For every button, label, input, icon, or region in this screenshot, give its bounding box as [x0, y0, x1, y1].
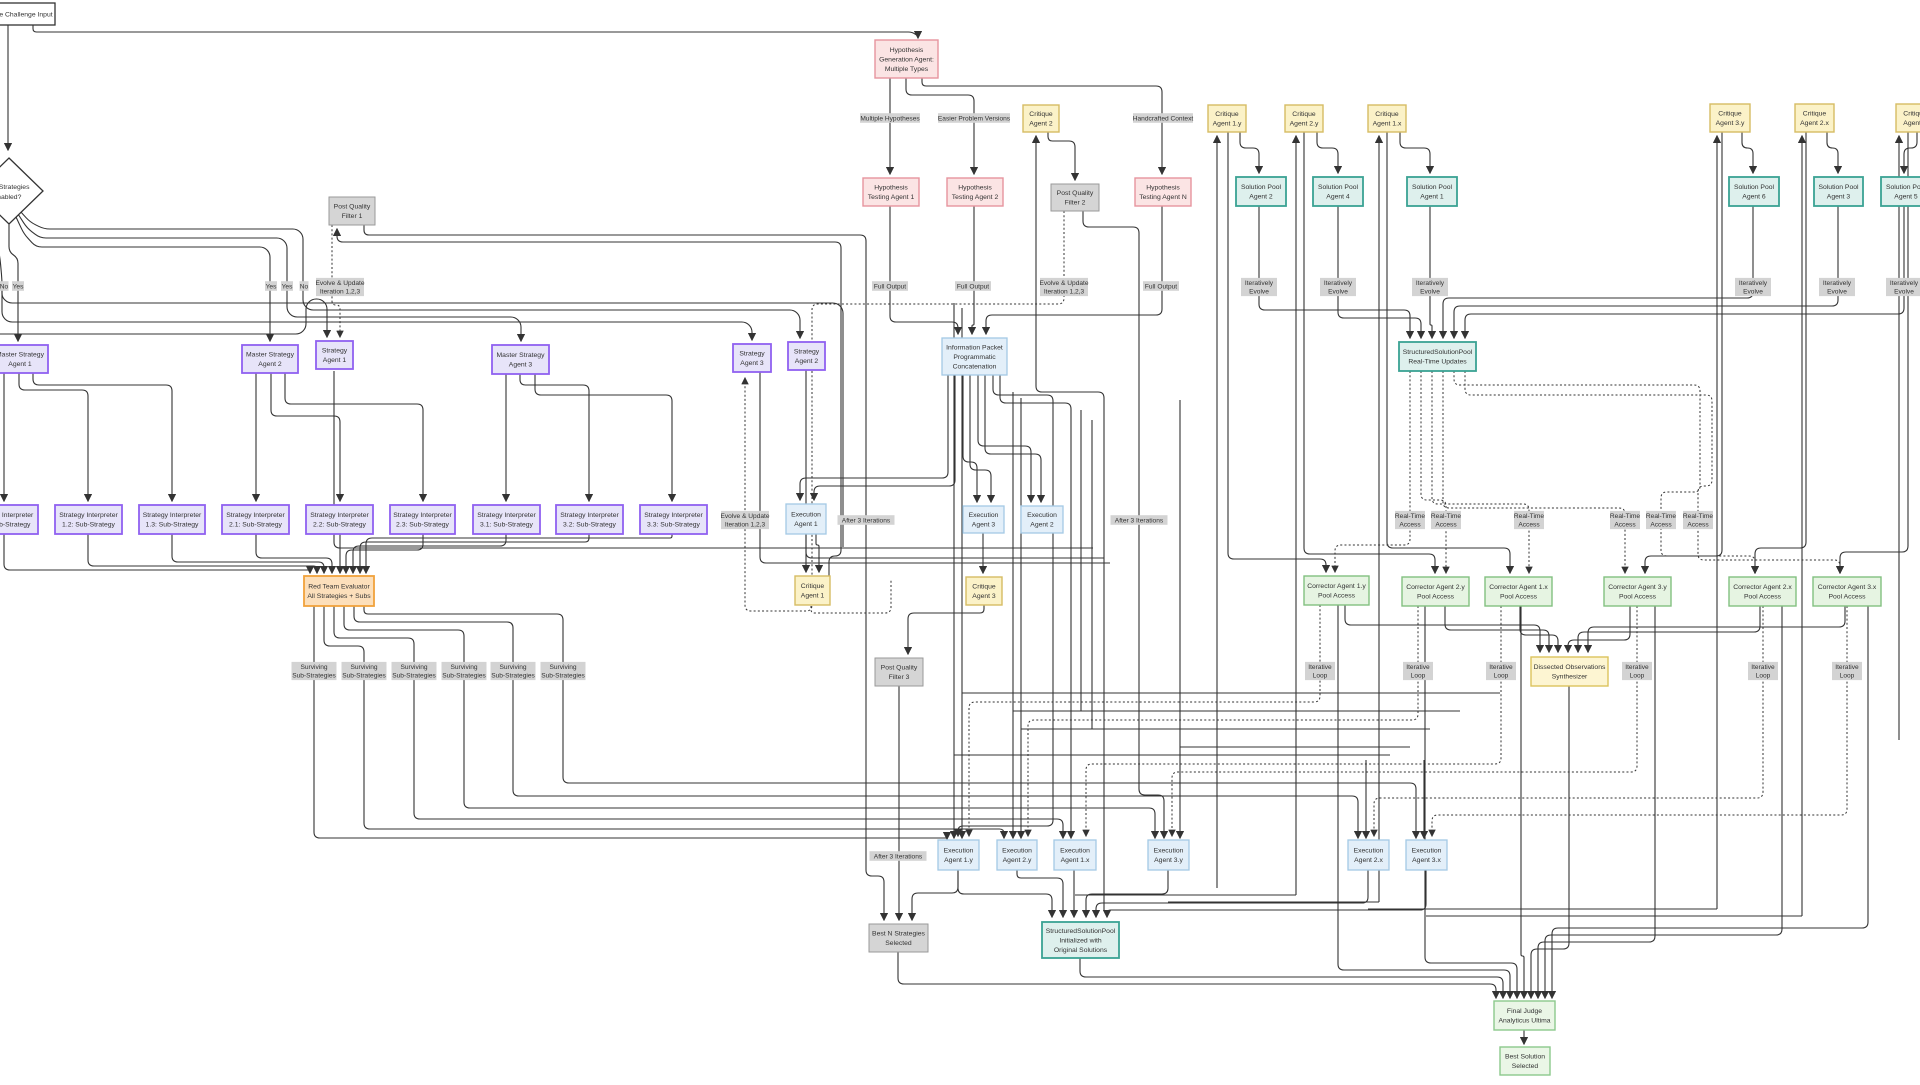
wire ca3x to fjudge	[1552, 606, 1868, 998]
wire dot crit1m tail	[811, 580, 891, 613]
svg-text:Generation Agent:: Generation Agent:	[879, 56, 934, 63]
svg-text:Execution: Execution	[969, 512, 999, 519]
svg-text:Evolve & Update: Evolve & Update	[315, 280, 364, 287]
svg-text:Hypothesis: Hypothesis	[958, 185, 992, 192]
svg-text:Iteration 1,2,3: Iteration 1,2,3	[725, 522, 766, 529]
svg-text:Corrector Agent 1.y: Corrector Agent 1.y	[1307, 583, 1366, 590]
svg-text:Agent 3: Agent 3	[1903, 120, 1920, 127]
wire diamond yes to ms3	[18, 214, 521, 341]
svg-text:Sub-Strategies: Sub-Strategies	[541, 673, 585, 680]
svg-text:Strategy: Strategy	[739, 351, 765, 358]
svg-text:1.1: Sub-Strategy: 1.1: Sub-Strategy	[0, 522, 31, 529]
wire ca2y to dissect	[1445, 606, 1549, 652]
wire sa3 bus	[760, 372, 1110, 563]
svg-text:Original Solutions: Original Solutions	[1054, 947, 1108, 954]
wire crit1y to sp2	[1240, 132, 1259, 173]
wire ms1 to si11	[3, 373, 5, 501]
wire si31 to redteam	[353, 534, 506, 573]
svg-text:Testing Agent 2: Testing Agent 2	[952, 194, 999, 201]
node infopacket	[942, 338, 1007, 375]
wire redteam s6	[364, 606, 1416, 838]
svg-text:After 3 Iterations: After 3 Iterations	[1115, 517, 1164, 524]
svg-text:Post Quality: Post Quality	[881, 665, 918, 672]
svg-text:Agent 2: Agent 2	[1249, 194, 1273, 201]
node crit1x	[1368, 105, 1406, 132]
wire dot pool ca1y	[1335, 371, 1410, 572]
node pqf1	[329, 197, 375, 225]
svg-text:Agent 1.x: Agent 1.x	[1061, 857, 1090, 864]
svg-text:Surviving: Surviving	[549, 664, 576, 671]
svg-text:Pool Access: Pool Access	[1417, 594, 1455, 601]
svg-text:Best Solution: Best Solution	[1505, 1054, 1545, 1061]
wire hs5	[954, 754, 1390, 756]
edge label Full Output	[872, 281, 908, 291]
svg-text:Agent 2.y: Agent 2.y	[1290, 121, 1319, 128]
node pqf2	[1051, 184, 1099, 211]
svg-text:Execution: Execution	[1154, 848, 1184, 855]
svg-text:Surviving: Surviving	[450, 664, 477, 671]
svg-text:Agent 1: Agent 1	[1420, 194, 1444, 201]
wire ms3 to si31	[505, 374, 507, 501]
wire hs2	[1013, 710, 1460, 712]
svg-text:Solution Pool: Solution Pool	[1886, 184, 1920, 191]
edge label After 3 Iterations	[870, 851, 927, 861]
svg-text:Real-Time: Real-Time	[1395, 513, 1425, 520]
wire ip to exec3 b	[970, 375, 991, 502]
wire crit2x to ca2x	[1755, 132, 1806, 573]
svg-text:Solution Pool: Solution Pool	[1412, 184, 1453, 191]
node crit1m	[795, 576, 830, 605]
svg-text:Strategy Interpreter: Strategy Interpreter	[393, 512, 452, 519]
wire dot pool ca2x	[1454, 371, 1755, 573]
wire ca3y to dissect	[1568, 606, 1630, 652]
svg-text:Execution: Execution	[1002, 848, 1032, 855]
wire diamond yes to ms1	[9, 224, 18, 341]
wire up crit2x	[1801, 136, 1803, 916]
svg-text:2.2: Sub-Strategy: 2.2: Sub-Strategy	[313, 522, 366, 529]
edge label Yes	[265, 281, 277, 291]
svg-text:Evolve: Evolve	[1827, 289, 1847, 296]
svg-text:Strategy Interpreter: Strategy Interpreter	[477, 512, 536, 519]
svg-text:Analyticus Ultima: Analyticus Ultima	[1498, 1018, 1550, 1025]
wire dot ca2x loop	[1374, 606, 1763, 836]
edge label Evolve &amp; Update Iteration 1,2,3	[1039, 278, 1088, 296]
node hyptest2	[947, 178, 1003, 206]
svg-text:Strategy: Strategy	[322, 348, 348, 355]
wire hypgen to hyptest2	[906, 78, 974, 174]
svg-text:Agent 3: Agent 3	[1827, 194, 1851, 201]
wire diamond no to sa2	[20, 211, 800, 338]
node dissect	[1531, 657, 1608, 686]
svg-text:After 3 Iterations: After 3 Iterations	[842, 517, 891, 524]
wire crit3y to sp6	[1742, 132, 1753, 173]
svg-text:Strategy Interpreter: Strategy Interpreter	[644, 512, 703, 519]
wire htN to ip	[986, 206, 1162, 334]
svg-text:Loop: Loop	[1840, 673, 1855, 680]
svg-text:Loop: Loop	[1630, 673, 1645, 680]
wire redteam s2	[324, 606, 1004, 838]
svg-text:Pool Access: Pool Access	[1500, 594, 1538, 601]
wire ca1x to dissect	[1520, 606, 1558, 652]
svg-text:Iterative: Iterative	[1308, 664, 1332, 671]
wire up crit1y	[1216, 136, 1218, 888]
svg-text:2.3: Sub-Strategy: 2.3: Sub-Strategy	[396, 522, 449, 529]
wire challenge to hypgen	[33, 25, 918, 38]
svg-text:Real-Time: Real-Time	[1646, 513, 1676, 520]
svg-text:Execution: Execution	[944, 848, 974, 855]
wire dissect to fjudge	[1531, 686, 1569, 998]
wire ms3 to si33	[535, 374, 672, 501]
node exec2	[1021, 506, 1063, 533]
svg-text:Iterative: Iterative	[1835, 664, 1859, 671]
wire ca1y to fjudge	[1338, 605, 1510, 998]
svg-text:Full Output: Full Output	[874, 283, 906, 290]
svg-text:Testing Agent N: Testing Agent N	[1139, 194, 1187, 201]
svg-text:Programmatic: Programmatic	[953, 354, 996, 361]
edge label Iteratively Evolve	[1819, 278, 1855, 296]
svg-text:Iteratively: Iteratively	[1739, 280, 1768, 287]
svg-text:Access: Access	[1435, 522, 1457, 529]
node fjudge	[1494, 1001, 1555, 1030]
wire ms3 to si32	[520, 374, 589, 501]
svg-text:Evolve: Evolve	[1420, 289, 1440, 296]
decision diamond Sub-Strategies Enabled?	[0, 158, 43, 224]
node ms1	[0, 345, 48, 373]
svg-text:Best N Strategies: Best N Strategies	[872, 931, 925, 938]
node crit2y	[1285, 105, 1323, 132]
wire si33 to redteam	[366, 534, 672, 573]
svg-text:Agent 2.x: Agent 2.x	[1800, 120, 1829, 127]
wire redteam s5	[354, 606, 1358, 838]
wire exec3xb join up	[1426, 915, 1802, 917]
node sp4	[1313, 177, 1363, 206]
node pqf3	[875, 658, 923, 686]
svg-text:Iteratively: Iteratively	[1245, 280, 1274, 287]
wire sp4 to pool	[1338, 206, 1421, 338]
svg-text:Loop: Loop	[1313, 673, 1328, 680]
edge label Multiple Hypotheses	[860, 113, 920, 123]
svg-text:Pool Access: Pool Access	[1828, 594, 1866, 601]
wire exec2yb to pool	[1017, 870, 1063, 917]
wire crit3x to sp5	[1904, 132, 1917, 173]
wire ca2x to dissect	[1578, 606, 1760, 652]
svg-text:Agent 1.x: Agent 1.x	[1373, 121, 1402, 128]
wire v1180	[1179, 400, 1181, 838]
svg-text:Agent 3.x: Agent 3.x	[1412, 857, 1441, 864]
node si21	[222, 505, 289, 534]
svg-text:Solution Pool: Solution Pool	[1241, 184, 1282, 191]
svg-text:Hypothesis: Hypothesis	[874, 185, 908, 192]
svg-text:Agent 3: Agent 3	[972, 593, 996, 600]
wire si21 to redteam	[256, 534, 332, 573]
wire ms2 to si22	[271, 373, 340, 501]
wire crit1x to ca1x	[1387, 132, 1510, 573]
wire exec1 to crit1m b	[816, 534, 819, 572]
svg-text:Master Strategy: Master Strategy	[497, 352, 546, 359]
node si31	[473, 505, 540, 534]
wire exec2xb join up	[1368, 908, 1717, 910]
wire sa1 bus	[334, 371, 1093, 548]
node ms3	[492, 345, 549, 374]
edge label Iteratively Evolve	[1241, 278, 1277, 296]
svg-text:Initialized with: Initialized with	[1059, 937, 1102, 944]
svg-text:Critique: Critique	[1029, 111, 1053, 118]
wire exec3xb to pool	[1107, 870, 1426, 917]
node si13	[139, 505, 205, 534]
wire ca2y to fjudge	[1425, 606, 1517, 998]
wire exec1xb to pool	[1073, 870, 1075, 917]
wire hypgen to hyptest1	[889, 78, 891, 174]
edge label Real-Time Access	[1514, 511, 1544, 529]
wire pqf3 to bestn	[898, 686, 900, 920]
svg-text:Sub-Strategies: Sub-Strategies	[292, 673, 336, 680]
wire v954	[953, 303, 955, 838]
wire ca3y to fjudge	[1538, 606, 1655, 998]
wire v962	[961, 308, 963, 838]
svg-text:Final Judge: Final Judge	[1507, 1008, 1542, 1015]
svg-text:Synthesizer: Synthesizer	[1552, 674, 1588, 681]
svg-text:Agent 2: Agent 2	[258, 361, 282, 368]
node exec2xb	[1348, 840, 1389, 870]
svg-text:Strategy Interpreter: Strategy Interpreter	[226, 512, 285, 519]
wire sp5 to pool	[1465, 206, 1904, 338]
svg-text:StructuredSolutionPool: StructuredSolutionPool	[1046, 928, 1116, 935]
svg-text:Iterative: Iterative	[1625, 664, 1649, 671]
svg-text:Evolve: Evolve	[1249, 289, 1269, 296]
edge label Easier Problem Versions	[938, 113, 1011, 123]
svg-text:Corrector Agent 1.x: Corrector Agent 1.x	[1489, 584, 1548, 591]
svg-text:Critique: Critique	[1718, 111, 1742, 118]
wire dot ca2y loop	[1028, 606, 1418, 836]
edge label Real-Time Access	[1431, 511, 1461, 529]
wire exec1xb join up	[1075, 894, 1296, 896]
svg-text:Access: Access	[1518, 522, 1540, 529]
svg-text:Critique: Critique	[1903, 111, 1920, 118]
edge label Iterative Loop	[1748, 662, 1778, 680]
node sp3	[1814, 177, 1863, 206]
wire ip stair1	[958, 375, 1053, 836]
svg-text:Evolve & Update: Evolve & Update	[1039, 280, 1088, 287]
svg-text:Execution: Execution	[1060, 848, 1090, 855]
wire ms1 to si13	[33, 373, 172, 501]
edge label Evolve &amp; Update Iteration 1,2,3	[720, 511, 769, 529]
wire sp3 to pool	[1454, 206, 1838, 338]
wire hs1	[962, 692, 1500, 694]
svg-text:Real-Time: Real-Time	[1431, 513, 1461, 520]
svg-text:Filter 1: Filter 1	[342, 213, 363, 220]
wire si13 to redteam	[172, 534, 324, 573]
node exec3yb	[1148, 840, 1189, 870]
edge label Surviving Sub-Strategies	[541, 662, 586, 680]
node si12	[55, 505, 122, 534]
wire si11 to redteam	[4, 534, 310, 573]
svg-text:Agent 1.y: Agent 1.y	[944, 857, 973, 864]
wire ip stair2	[1000, 375, 1071, 838]
svg-text:Yes: Yes	[282, 283, 293, 290]
node exec1	[786, 504, 826, 534]
wire hs3	[1021, 728, 1430, 730]
svg-text:3.2: Sub-Strategy: 3.2: Sub-Strategy	[563, 522, 616, 529]
wire redteam s3	[334, 606, 1063, 838]
svg-text:Iteratively: Iteratively	[1324, 280, 1353, 287]
wire ms2 to si23	[285, 373, 423, 501]
node bestsol	[1500, 1047, 1550, 1075]
node si33	[640, 505, 707, 534]
edge label Surviving Sub-Strategies	[342, 662, 387, 680]
svg-text:Post Quality: Post Quality	[1057, 190, 1094, 197]
svg-text:Strategy: Strategy	[794, 349, 820, 356]
edge label Surviving Sub-Strategies	[442, 662, 487, 680]
edge label Iterative Loop	[1486, 662, 1516, 680]
wire crit1x to sp1	[1400, 132, 1430, 173]
wire sp2 to pool	[1259, 206, 1410, 338]
edge label Real-Time Access	[1646, 511, 1676, 529]
svg-text:Agent 3.y: Agent 3.y	[1154, 857, 1183, 864]
svg-text:3.3: Sub-Strategy: 3.3: Sub-Strategy	[647, 522, 700, 529]
svg-text:Access: Access	[1614, 522, 1636, 529]
edge label No	[300, 281, 309, 291]
node bestn	[869, 924, 928, 952]
svg-text:Easier Problem Versions: Easier Problem Versions	[938, 115, 1011, 122]
node ca3y	[1604, 577, 1671, 606]
svg-text:Dissected Observations: Dissected Observations	[1534, 664, 1606, 671]
edge label Surviving Sub-Strategies	[292, 662, 337, 680]
svg-text:1.2: Sub-Strategy: 1.2: Sub-Strategy	[62, 522, 115, 529]
wire v1013	[1012, 392, 1014, 838]
svg-text:Agent 1: Agent 1	[323, 357, 347, 364]
svg-text:Loop: Loop	[1494, 673, 1509, 680]
wire exec3yb to pool	[1086, 870, 1168, 917]
svg-text:Execution: Execution	[1354, 848, 1384, 855]
wire si12 to redteam	[88, 534, 317, 573]
wire fjudge to bestsol	[1523, 1030, 1525, 1044]
svg-text:Master Strategy: Master Strategy	[246, 352, 295, 359]
svg-text:Agent 2: Agent 2	[1029, 121, 1053, 128]
svg-text:Strategy Interpreter: Strategy Interpreter	[310, 512, 369, 519]
wire crit3m to pqf3	[908, 605, 984, 654]
svg-text:Agent 6: Agent 6	[1742, 194, 1766, 201]
svg-text:Critique: Critique	[1215, 111, 1239, 118]
svg-text:Strategy Interpreter: Strategy Interpreter	[143, 512, 202, 519]
svg-text:Pool Access: Pool Access	[1744, 594, 1782, 601]
svg-text:Pool Access: Pool Access	[1318, 593, 1356, 600]
svg-text:Agent 3.y: Agent 3.y	[1716, 120, 1745, 127]
svg-text:Iterative: Iterative	[1489, 664, 1513, 671]
edge label No	[0, 281, 9, 291]
svg-text:3.1: Sub-Strategy: 3.1: Sub-Strategy	[480, 522, 533, 529]
wire dot ca3x loop	[1432, 606, 1847, 836]
svg-text:Sub-Strategies: Sub-Strategies	[0, 184, 30, 191]
wire redteam s4	[344, 606, 1155, 838]
svg-text:No: No	[300, 283, 309, 290]
node sp6	[1729, 177, 1779, 206]
wire up crit2y	[1295, 136, 1297, 895]
svg-text:1.3: Sub-Strategy: 1.3: Sub-Strategy	[146, 522, 199, 529]
wire dot pqf2 evolve	[745, 211, 1064, 611]
node ms2	[242, 345, 298, 373]
svg-text:Critique: Critique	[801, 583, 825, 590]
node exec1xb	[1054, 840, 1096, 870]
wire pqf1 to bestn	[364, 225, 884, 920]
wire si22 to redteam	[339, 534, 341, 573]
svg-text:Core Challenge Input: Core Challenge Input	[0, 11, 53, 18]
wire crit2x to sp3	[1827, 132, 1838, 173]
svg-text:Sub-Strategies: Sub-Strategies	[342, 673, 386, 680]
svg-text:Solution Pool: Solution Pool	[1734, 184, 1775, 191]
node sspoolinit	[1042, 922, 1119, 958]
svg-text:Strategy Interpreter: Strategy Interpreter	[560, 512, 619, 519]
svg-text:Strategy Interpreter: Strategy Interpreter	[0, 512, 34, 519]
svg-text:Multiple Hypotheses: Multiple Hypotheses	[860, 115, 920, 122]
node exec3xb	[1406, 840, 1447, 870]
wire si32 to redteam	[360, 534, 589, 573]
node ca3x	[1813, 577, 1881, 606]
svg-text:Agent 3: Agent 3	[509, 362, 533, 369]
svg-text:Critique: Critique	[1375, 111, 1399, 118]
svg-text:Evolve: Evolve	[1743, 289, 1763, 296]
svg-text:Iterative: Iterative	[1406, 664, 1430, 671]
node exec1yb	[938, 840, 979, 870]
svg-text:Red Team Evaluator: Red Team Evaluator	[308, 584, 370, 591]
node challenge	[0, 3, 55, 25]
svg-text:Real-Time Updates: Real-Time Updates	[1408, 359, 1467, 366]
wire ht2 to ip	[972, 206, 974, 334]
svg-text:Evolve: Evolve	[1894, 289, 1914, 296]
svg-text:Post Quality: Post Quality	[334, 204, 371, 211]
wire left bus h303	[2, 290, 843, 547]
wire v1366	[1365, 760, 1367, 838]
svg-text:Solution Pool: Solution Pool	[1318, 184, 1359, 191]
svg-text:Execution: Execution	[1412, 848, 1442, 855]
wire bestn to fjudge	[898, 952, 1496, 998]
svg-text:Critique: Critique	[1803, 111, 1827, 118]
svg-text:No: No	[0, 283, 9, 290]
svg-text:Corrector Agent 3.x: Corrector Agent 3.x	[1818, 584, 1877, 591]
wire redteam s1	[314, 606, 947, 839]
edge label After 3 Iterations	[1111, 515, 1168, 525]
node sp1	[1407, 177, 1457, 206]
node si22	[306, 505, 373, 534]
wire exec2xb to pool	[1096, 870, 1368, 917]
wire ip to exec2 b	[985, 375, 1041, 502]
svg-text:Agent 1: Agent 1	[801, 593, 825, 600]
node crit3y	[1710, 104, 1750, 132]
node crit3m	[966, 577, 1002, 605]
node crit3x	[1896, 104, 1920, 132]
wire up crit3x	[1898, 136, 1900, 740]
svg-text:Iteratively: Iteratively	[1890, 280, 1919, 287]
edge label Iterative Loop	[1403, 662, 1433, 680]
node hyptest1	[863, 178, 919, 206]
svg-text:Access: Access	[1687, 522, 1709, 529]
edge label Real-Time Access	[1610, 511, 1640, 529]
wire ip to exec1 b	[814, 375, 955, 500]
svg-text:Agent 4: Agent 4	[1326, 194, 1350, 201]
svg-text:Iteratively: Iteratively	[1416, 280, 1445, 287]
svg-text:Surviving: Surviving	[350, 664, 377, 671]
svg-text:Execution: Execution	[791, 512, 821, 519]
wire dot pool ca1x	[1432, 371, 1529, 573]
svg-text:Sub-Strategies: Sub-Strategies	[442, 673, 486, 680]
edge label Surviving Sub-Strategies	[491, 662, 536, 680]
svg-text:Loop: Loop	[1756, 673, 1771, 680]
svg-text:Access: Access	[1650, 522, 1672, 529]
edge label After 3 Iterations	[838, 515, 895, 525]
svg-text:Selected: Selected	[885, 940, 912, 947]
node ca1y	[1304, 576, 1369, 605]
svg-text:Yes: Yes	[13, 283, 24, 290]
edge label Iteratively Evolve	[1320, 278, 1356, 296]
